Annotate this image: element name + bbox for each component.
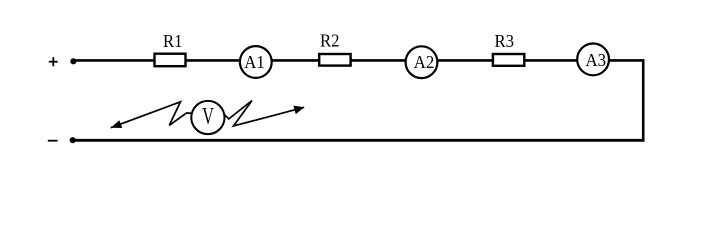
svg-text:R2: R2: [320, 31, 340, 51]
svg-text:A1: A1: [244, 52, 265, 72]
probe arrow right: [224, 101, 304, 127]
voltmeter V: [191, 101, 224, 134]
resistor R1: [155, 54, 186, 66]
svg-text:R1: R1: [163, 31, 183, 51]
probe arrow left: [111, 102, 192, 128]
terminal +: [49, 57, 58, 66]
resistor R2: [319, 54, 350, 66]
node plus terminal dot: [70, 58, 76, 64]
wire bottom horizontal: [73, 139, 645, 142]
ammeter A3: [577, 44, 609, 76]
svg-text:R3: R3: [495, 31, 515, 51]
resistor R3: [493, 54, 524, 66]
svg-text:A2: A2: [414, 52, 435, 72]
wire right vertical: [642, 59, 645, 142]
wire top horizontal: [73, 59, 643, 62]
svg-text:A3: A3: [586, 50, 607, 70]
node minus terminal dot: [70, 137, 76, 143]
ammeter A1: [240, 46, 272, 78]
svg-text:V: V: [202, 103, 214, 130]
ammeter A2: [406, 46, 438, 78]
terminal minus: [48, 140, 58, 142]
